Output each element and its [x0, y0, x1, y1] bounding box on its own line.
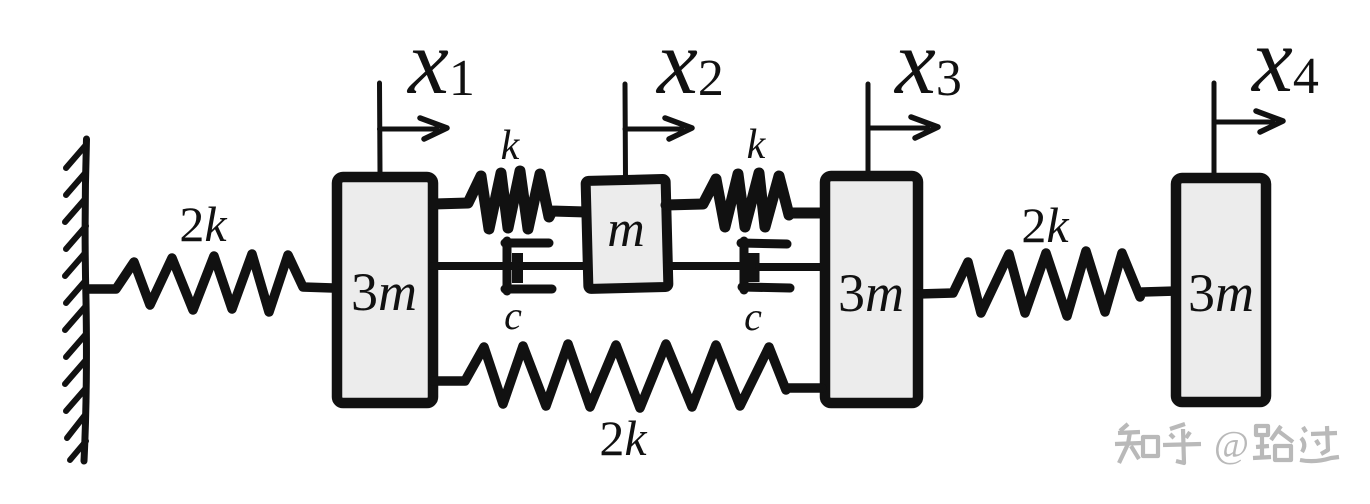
svg-text:3m: 3m: [351, 262, 417, 322]
damper c #1 (mass 3m #1 to mass m): [433, 241, 586, 291]
svg-text:x4: x4: [1250, 9, 1319, 111]
svg-text:k: k: [747, 122, 767, 168]
svg-text:x3: x3: [893, 11, 962, 113]
spring 2k bottom (mass 3m #1 to mass 3m #2): [433, 344, 822, 408]
svg-text:3m: 3m: [838, 263, 904, 323]
svg-text:m: m: [607, 201, 645, 258]
svg-text:2k: 2k: [599, 410, 647, 466]
x1 arrow: [380, 83, 448, 172]
x2 arrow: [625, 84, 692, 178]
damper c #2 (mass m to mass 3m #2): [667, 241, 822, 290]
x4 arrow: [1214, 83, 1283, 176]
spring 2k right (mass 3m #2 to mass 3m #3): [918, 251, 1176, 316]
svg-text:x2: x2: [655, 11, 724, 113]
spring 2k (wall to mass 3m #1): [88, 254, 333, 312]
watermark 知乎 @路过 (drawn glyph approximation): [1115, 424, 1339, 466]
svg-text:k: k: [501, 123, 521, 169]
mass 3m #3: [1176, 178, 1266, 402]
svg-text:2k: 2k: [1021, 197, 1069, 253]
wall (fixed support, left): [65, 139, 87, 461]
svg-text:c: c: [504, 293, 522, 338]
svg-text:@: @: [1214, 424, 1249, 466]
x3 arrow: [868, 84, 938, 172]
svg-text:3m: 3m: [1188, 263, 1254, 323]
svg-text:c: c: [744, 294, 762, 339]
mass 3m #1: [337, 177, 433, 403]
spring k #2 (mass m to mass 3m #2): [666, 173, 822, 227]
mass m: [586, 179, 669, 289]
spring k #1 (mass 3m #1 to mass m): [434, 171, 586, 229]
svg-text:2k: 2k: [179, 196, 227, 252]
mass 3m #2: [825, 176, 918, 403]
svg-text:x1: x1: [406, 11, 475, 113]
